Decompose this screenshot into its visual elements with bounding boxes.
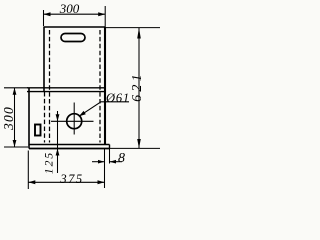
- top dim 300 dimension line: [44, 13, 106, 15]
- dim 8 right extension line: [109, 149, 111, 164]
- base plate right edge: [109, 145, 111, 149]
- dim 621 top arrow: [137, 28, 141, 39]
- hidden continuation of upper box left edge: [44, 92, 46, 143]
- dim 621 bottom arrow: [137, 139, 141, 148]
- top dim 300 right extension line: [104, 6, 106, 27]
- svg-text:621: 621: [130, 71, 145, 102]
- left dim 300 top arrow: [13, 88, 17, 95]
- dim 375 left arrow: [28, 180, 35, 184]
- svg-text:300: 300: [1, 106, 16, 131]
- leader line for dia 61: [79, 102, 129, 117]
- dim 375 right extension line: [104, 149, 106, 189]
- svg-text:Ø61: Ø61: [105, 91, 130, 105]
- upper box top edge: [44, 26, 105, 28]
- dim 125 lower arrow pointing up: [56, 149, 60, 156]
- dim 125 upper arrow pointing down: [56, 114, 60, 121]
- left dim 300 dimension line: [14, 88, 16, 147]
- left dim 300 bottom arrow: [13, 140, 17, 147]
- hidden line right inner wall: [99, 30, 101, 143]
- top dim 300 left extension line: [43, 10, 45, 27]
- dim 125 dimension line: [57, 111, 59, 173]
- top dim 300 left arrow: [44, 12, 51, 16]
- svg-text:125: 125: [44, 151, 56, 174]
- dim 375 left extension line: [27, 151, 29, 190]
- left dim 300 bottom extension line: [4, 146, 28, 148]
- junction lower line / lower box top edge: [27, 91, 105, 93]
- leader arrowhead: [79, 111, 86, 117]
- svg-text:8: 8: [118, 151, 125, 166]
- slot obround in upper box: [61, 34, 85, 42]
- dim 8 left arrow line: [92, 161, 105, 163]
- dim 8 right arrow line: [110, 161, 123, 163]
- dim 8 right arrow: [110, 160, 117, 164]
- lower box left edge: [28, 88, 30, 149]
- dim 621 top extension line: [106, 27, 160, 29]
- slot rectangle on lower box left wall: [35, 125, 41, 136]
- hole horizontal centerline: [51, 120, 94, 122]
- right edge shared by both boxes: [104, 27, 106, 145]
- hole circle: [67, 114, 82, 129]
- dim 8 left arrow: [98, 160, 105, 164]
- lower box bottom line: [29, 144, 110, 146]
- upper box left edge: [43, 27, 45, 92]
- dim 375 right arrow: [98, 180, 105, 184]
- base plate bottom edge: [29, 148, 110, 150]
- dim 375 dimension line: [28, 181, 104, 183]
- svg-text:375: 375: [59, 172, 83, 186]
- left dim 300 top extension line: [4, 87, 28, 89]
- dim 621 dimension line: [138, 28, 140, 149]
- junction upper line: [27, 87, 105, 89]
- hole vertical centerline: [73, 103, 75, 135]
- hidden line left inner wall: [49, 30, 51, 143]
- svg-text:300: 300: [59, 1, 80, 16]
- dim 621 bottom extension line: [110, 147, 160, 149]
- top dim 300 right arrow: [98, 12, 105, 16]
